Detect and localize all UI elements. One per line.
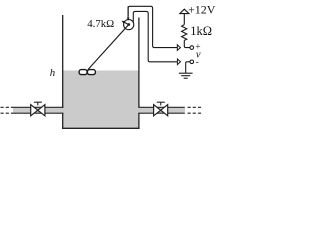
tank left wall (62, 15, 64, 129)
wiper terminal arrowhead (127, 18, 130, 21)
wiper terminal wire with down arrow (127, 6, 129, 18)
plug pin arrow (+ row) (177, 45, 180, 51)
svg-text:-: - (196, 57, 199, 67)
inlet valve (left, bowtie symbol) (31, 105, 45, 116)
float arm (float to pot shaft) (88, 25, 129, 70)
right pipe dashed continuation (188, 107, 204, 113)
wire: supply to resistor (183, 14, 185, 25)
right pipe top wall (138, 106, 185, 108)
wire: wiper to + plug (node A) (128, 6, 177, 47)
inlet valve T-handle (34, 102, 42, 105)
svg-text:h: h (50, 67, 55, 79)
terminal post + (190, 46, 194, 50)
svg-text:4.7kΩ: 4.7kΩ (87, 18, 114, 30)
float (79, 70, 95, 75)
plug pin arrow (- row) (177, 59, 180, 65)
outlet valve T-handle (157, 102, 165, 105)
wiper arrow shaft (123, 22, 129, 25)
wiper arrowhead (122, 21, 126, 24)
wire: pot track end to - plug (node B) (133, 11, 177, 61)
tank right wall (138, 18, 140, 129)
ground (179, 73, 193, 78)
left pipe dashed continuation (1, 107, 14, 113)
right pipe liquid fill (138, 108, 185, 113)
left pipe bottom wall (13, 112, 64, 114)
terminal post - (190, 60, 194, 64)
left pipe top wall (13, 106, 64, 108)
potentiometer R1 body (124, 20, 134, 30)
outlet valve (right, bowtie symbol) (154, 105, 168, 116)
+12V supply symbol (180, 9, 189, 13)
left pipe liquid fill (13, 108, 64, 113)
svg-text:1kΩ: 1kΩ (190, 24, 212, 38)
potentiometer shaft dot (127, 23, 130, 26)
tank bottom wall (62, 127, 140, 129)
svg-text:+12V: +12V (188, 2, 216, 16)
wire: - terminal to ground (186, 62, 190, 73)
wire: resistor to + terminal (184, 40, 190, 47)
resistor R2 zigzag (182, 25, 187, 41)
right pipe bottom wall (138, 112, 185, 114)
tank water fill (63, 71, 139, 129)
